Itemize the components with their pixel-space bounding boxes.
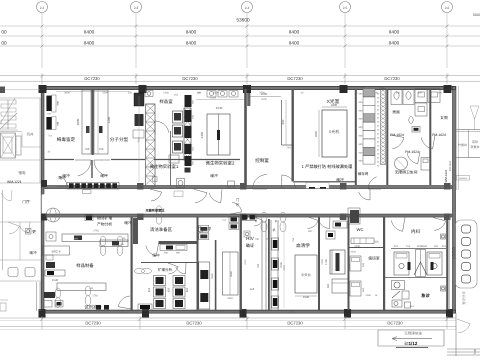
svg-text:DC7230: DC7230 xyxy=(186,321,202,326)
svg-text:2-5: 2-5 xyxy=(343,6,348,10)
svg-text:DC7230: DC7230 xyxy=(384,76,400,81)
svg-text:1400: 1400 xyxy=(163,91,169,94)
svg-text:548: 548 xyxy=(348,263,351,268)
svg-text:相邻扩增: 相邻扩增 xyxy=(97,216,112,221)
svg-text:2500: 2500 xyxy=(261,98,267,101)
svg-text:厅: 厅 xyxy=(236,203,240,207)
svg-text:A-6: A-6 xyxy=(250,287,255,291)
svg-text:1800: 1800 xyxy=(331,103,338,107)
svg-text:5194: 5194 xyxy=(210,96,216,99)
svg-text:WM8900: WM8900 xyxy=(459,177,468,180)
svg-text:确证: 确证 xyxy=(246,243,255,248)
svg-text:1540: 1540 xyxy=(303,295,310,299)
svg-text:男厕: 男厕 xyxy=(392,111,400,115)
svg-text:1200: 1200 xyxy=(107,116,111,123)
svg-text:3400: 3400 xyxy=(200,131,204,138)
svg-text:750: 750 xyxy=(257,263,260,268)
svg-text:3540: 3540 xyxy=(230,271,233,277)
svg-text:8400: 8400 xyxy=(389,40,400,45)
svg-text:2-3: 2-3 xyxy=(134,6,139,10)
svg-text:4700: 4700 xyxy=(244,259,247,265)
svg-text:PM-1024: PM-1024 xyxy=(432,133,446,137)
svg-text:750: 750 xyxy=(286,147,291,150)
svg-text:940: 940 xyxy=(339,217,344,220)
svg-text:女厕: 女厕 xyxy=(440,115,448,120)
svg-text:±00: ±00 xyxy=(164,252,169,255)
svg-text:5600: 5600 xyxy=(473,13,480,17)
svg-text:B-1: B-1 xyxy=(410,305,414,308)
svg-text:1940: 1940 xyxy=(216,106,223,110)
svg-text:值班室: 值班室 xyxy=(368,256,380,261)
svg-text:门: 门 xyxy=(236,197,240,202)
svg-text:750: 750 xyxy=(99,147,104,151)
svg-text:样品室: 样品室 xyxy=(159,99,173,104)
svg-text:1700: 1700 xyxy=(325,259,328,265)
svg-text:650: 650 xyxy=(186,287,189,292)
svg-text:540: 540 xyxy=(362,287,365,292)
svg-text:BSC-II: BSC-II xyxy=(52,250,61,254)
svg-text:940: 940 xyxy=(418,91,423,94)
svg-text:8400: 8400 xyxy=(289,40,300,45)
svg-text:2458: 2458 xyxy=(350,251,356,254)
svg-text:PM-1221: PM-1221 xyxy=(449,160,452,171)
svg-text:HIV: HIV xyxy=(246,236,255,241)
svg-text:LOGO: LOGO xyxy=(451,246,456,259)
svg-text:竹置井: 竹置井 xyxy=(458,143,467,147)
svg-text:缓冲: 缓冲 xyxy=(58,175,66,180)
svg-text:新置井: 新置井 xyxy=(470,145,479,149)
svg-text:00: 00 xyxy=(1,29,7,34)
svg-text:540: 540 xyxy=(362,262,365,267)
svg-text:PV1: PV1 xyxy=(442,245,447,248)
svg-text:2458: 2458 xyxy=(365,294,371,297)
svg-text:8400: 8400 xyxy=(186,29,197,34)
svg-text:2500: 2500 xyxy=(261,92,268,96)
svg-text:WXBM40: WXBM40 xyxy=(417,245,428,248)
svg-text:00: 00 xyxy=(1,40,7,45)
svg-text:900: 900 xyxy=(176,252,181,255)
svg-text:2-4: 2-4 xyxy=(245,6,250,10)
svg-text:更: 更 xyxy=(32,230,36,234)
svg-text:750: 750 xyxy=(85,147,90,151)
svg-text:4700: 4700 xyxy=(289,311,295,314)
svg-text:754: 754 xyxy=(48,135,53,138)
svg-text:1750: 1750 xyxy=(119,311,125,314)
svg-text:DC7230: DC7230 xyxy=(182,76,198,81)
svg-text:3000: 3000 xyxy=(76,118,80,125)
svg-text:1-2: 1-2 xyxy=(222,219,226,222)
svg-text:WM-1221: WM-1221 xyxy=(7,180,22,184)
svg-text:DC7230: DC7230 xyxy=(387,321,403,326)
svg-text:缓冲: 缓冲 xyxy=(100,173,108,178)
svg-text:机: 机 xyxy=(272,228,275,232)
svg-text:4700: 4700 xyxy=(283,265,286,271)
svg-text:扩增分析: 扩增分析 xyxy=(158,267,173,272)
svg-text:940: 940 xyxy=(438,91,443,94)
svg-text:8400: 8400 xyxy=(389,29,400,34)
svg-text:产物分析: 产物分析 xyxy=(97,222,112,227)
svg-text:4-6: 4-6 xyxy=(74,238,78,241)
svg-text:1 严禁敲打防 射线玻漏处理: 1 严禁敲打防 射线玻漏处理 xyxy=(302,164,354,169)
svg-text:3600: 3600 xyxy=(64,91,70,94)
svg-text:DC7230: DC7230 xyxy=(85,321,101,326)
svg-text:1750: 1750 xyxy=(92,295,98,298)
svg-text:缓冲: 缓冲 xyxy=(210,173,218,178)
svg-text:560: 560 xyxy=(327,283,330,288)
svg-text:650: 650 xyxy=(168,287,171,292)
svg-text:140: 140 xyxy=(128,91,133,94)
svg-text:53600: 53600 xyxy=(236,18,250,24)
svg-text:DC7230: DC7230 xyxy=(84,76,100,81)
svg-text:登记分诊: 登记分诊 xyxy=(462,291,466,305)
svg-text:缓冲: 缓冲 xyxy=(152,253,160,258)
svg-text:3540: 3540 xyxy=(211,273,214,279)
svg-text:8400: 8400 xyxy=(186,40,197,45)
svg-text:TV5: TV5 xyxy=(406,245,411,248)
svg-text:分子分型: 分子分型 xyxy=(110,137,129,142)
svg-text:中央台: 中央台 xyxy=(301,273,311,277)
svg-text:储存间: 储存间 xyxy=(358,171,369,176)
svg-text:X光机: X光机 xyxy=(329,129,340,134)
svg-text:WC: WC xyxy=(357,227,364,232)
svg-text:清洁准备区: 清洁准备区 xyxy=(150,227,173,232)
svg-text:1540: 1540 xyxy=(52,278,59,282)
svg-text:强电: 强电 xyxy=(18,170,26,175)
svg-text:8400: 8400 xyxy=(289,29,300,34)
svg-text:控制室: 控制室 xyxy=(255,158,269,163)
svg-text:1500: 1500 xyxy=(102,91,108,94)
svg-text:无障碍卫生间: 无障碍卫生间 xyxy=(395,170,418,175)
svg-text:无障碍坡道: 无障碍坡道 xyxy=(404,332,422,336)
svg-text:样品制备: 样品制备 xyxy=(76,263,94,268)
svg-text:650: 650 xyxy=(148,287,151,292)
svg-text:2800: 2800 xyxy=(314,130,318,137)
svg-text:2-6: 2-6 xyxy=(445,6,450,10)
svg-text:+046: +046 xyxy=(359,86,365,89)
svg-text:5400: 5400 xyxy=(213,91,219,94)
svg-text:1750: 1750 xyxy=(93,230,99,233)
svg-text:T28: T28 xyxy=(473,349,477,355)
svg-text:微生物实验室2: 微生物实验室2 xyxy=(206,161,235,166)
svg-text:门厅: 门厅 xyxy=(22,199,30,204)
svg-text:VOR: VOR xyxy=(47,112,52,115)
svg-text:DC7230: DC7230 xyxy=(287,76,303,81)
svg-text:风井: 风井 xyxy=(27,133,34,137)
svg-text:缓冲: 缓冲 xyxy=(29,250,37,255)
svg-text:+046: +046 xyxy=(378,86,384,89)
svg-text:DC7230: DC7230 xyxy=(287,321,303,326)
svg-text:8400: 8400 xyxy=(84,29,95,34)
svg-text:4B: 4B xyxy=(120,243,123,246)
svg-text:900: 900 xyxy=(308,230,313,233)
svg-text:无菌实验室区: 无菌实验室区 xyxy=(144,209,165,213)
svg-text:WM-1221: WM-1221 xyxy=(444,169,448,182)
svg-text:890: 890 xyxy=(281,119,285,124)
svg-text:4-9: 4-9 xyxy=(89,287,93,290)
svg-text:血清学: 血清学 xyxy=(296,243,310,248)
svg-text:容铁: 容铁 xyxy=(472,140,478,144)
svg-text:PV1: PV1 xyxy=(394,245,399,248)
svg-text:微生物实验室1: 微生物实验室1 xyxy=(150,164,179,169)
svg-text:8400: 8400 xyxy=(84,40,95,45)
svg-text:2-2: 2-2 xyxy=(40,6,45,10)
svg-text:梅毒鉴定: 梅毒鉴定 xyxy=(57,137,76,142)
svg-text:1700: 1700 xyxy=(321,259,324,265)
svg-text:内科: 内科 xyxy=(411,229,421,234)
svg-text:TG1: TG1 xyxy=(434,245,439,248)
svg-text:1540: 1540 xyxy=(227,297,233,300)
svg-text:急诊: 急诊 xyxy=(421,293,430,298)
svg-text:254: 254 xyxy=(174,94,179,97)
svg-text:i=1/12: i=1/12 xyxy=(405,341,418,346)
svg-text:§18: §18 xyxy=(374,241,379,244)
